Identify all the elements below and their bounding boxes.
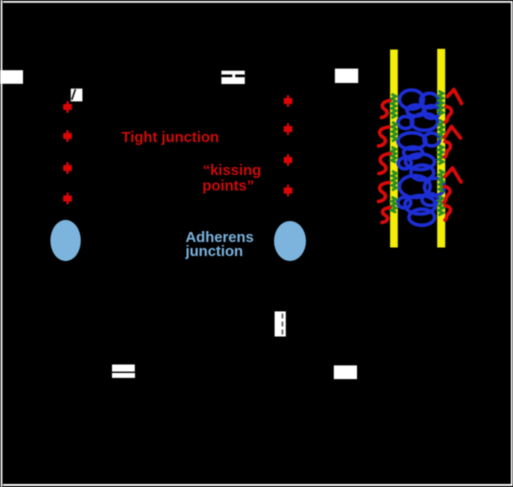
svg-text:Tight junction: Tight junction — [122, 130, 220, 146]
svg-text:points”: points” — [202, 178, 254, 194]
svg-text:“kissing: “kissing — [203, 163, 261, 179]
svg-text:junction: junction — [185, 244, 244, 260]
